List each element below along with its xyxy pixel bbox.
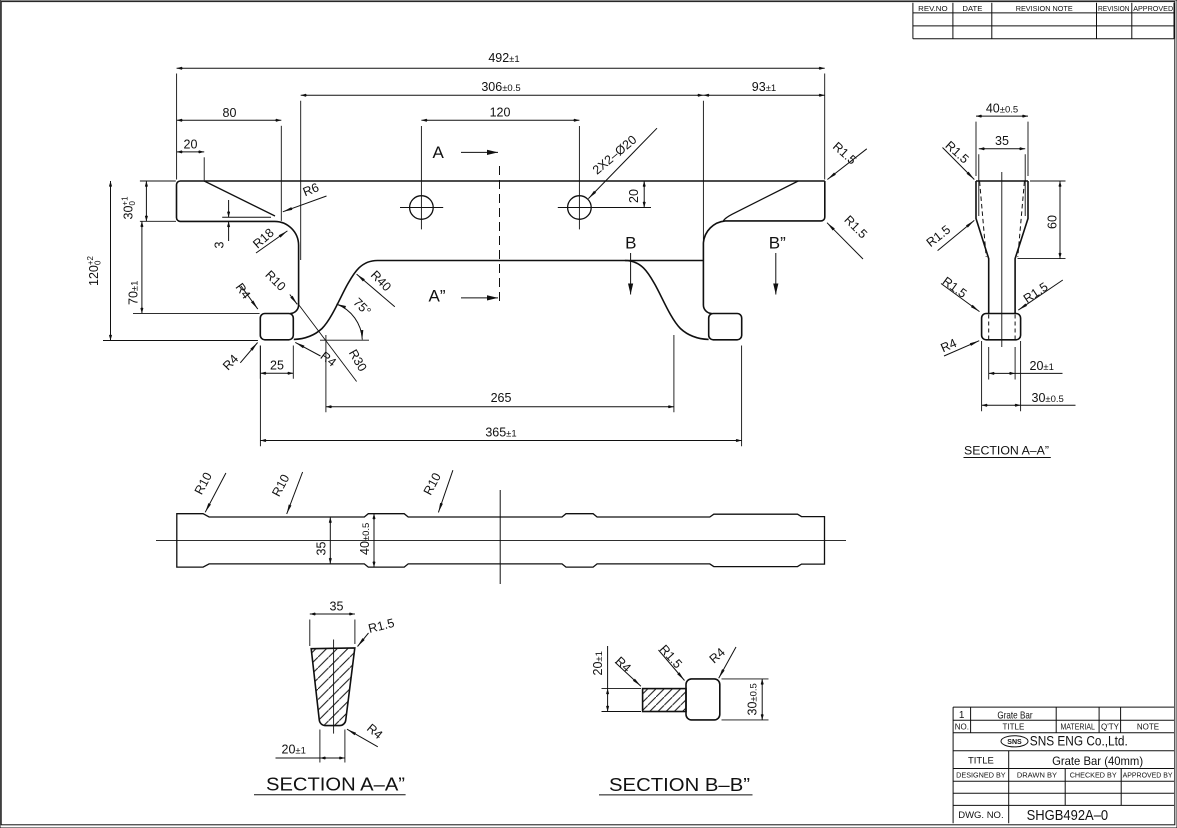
svg-text:R4: R4 xyxy=(612,654,633,675)
svg-text:SNS: SNS xyxy=(1007,739,1022,746)
svg-text:2X2–Ø20: 2X2–Ø20 xyxy=(590,133,639,178)
trapezoid centerline xyxy=(333,640,335,734)
label R1.5 sec 4 xyxy=(1018,280,1063,310)
svg-text:TITLE: TITLE xyxy=(968,755,994,766)
dim 35 trap extensions xyxy=(310,620,355,647)
title block outer xyxy=(953,707,1174,823)
svg-text:R1.5: R1.5 xyxy=(657,642,685,671)
title block columns lower xyxy=(1009,751,1121,823)
svg-text:70±1: 70±1 xyxy=(127,281,141,305)
svg-text:DWG. NO.: DWG. NO. xyxy=(958,810,1003,821)
label R1.5 bottom right xyxy=(827,223,863,259)
hatched web rect xyxy=(643,689,686,712)
dim 80 xyxy=(177,119,282,121)
dim 40 extensions xyxy=(976,122,1028,176)
dim 265 extensions xyxy=(326,335,674,412)
svg-text:B: B xyxy=(625,234,636,253)
svg-text:R4: R4 xyxy=(707,645,728,666)
dim 265 xyxy=(326,406,674,408)
left extension lines xyxy=(103,181,369,341)
plan outline with width steps xyxy=(177,514,825,567)
SECTIONAA-RIGHT xyxy=(924,101,1076,457)
svg-text:REVISION NOTE: REVISION NOTE xyxy=(1016,4,1073,13)
hidden taper right dashed xyxy=(1018,182,1025,258)
label R4 sec xyxy=(944,341,979,356)
tangent diagonal / R30 leader xyxy=(298,304,357,382)
svg-text:DATE: DATE xyxy=(962,4,982,13)
label R1.5 B xyxy=(659,650,685,681)
svg-text:35: 35 xyxy=(995,134,1009,148)
label R10 plan 1 xyxy=(205,473,226,512)
label R4 lower right foot xyxy=(295,342,320,356)
label R1.5 sec 1 xyxy=(943,148,975,180)
hidden taper left dashed xyxy=(980,182,987,258)
hatched trapezoid xyxy=(311,648,355,726)
foot hidden web dashed xyxy=(989,315,1015,340)
dim 25 extensions xyxy=(260,346,293,379)
dim 20 left xyxy=(177,151,205,153)
svg-text:R1.5: R1.5 xyxy=(841,213,870,242)
SECTIONBB xyxy=(591,642,769,795)
svg-text:R1.5: R1.5 xyxy=(830,139,859,167)
revision table grid xyxy=(913,3,1174,39)
dim 120 holes xyxy=(421,119,579,121)
svg-text:MATERIAL: MATERIAL xyxy=(1060,723,1095,732)
section head top edge xyxy=(976,180,1028,182)
FRONTVIEW xyxy=(86,51,870,446)
dim 365 xyxy=(260,440,741,442)
hole 2 xyxy=(568,196,592,220)
dim 492 extension lines xyxy=(177,74,825,180)
svg-text:35: 35 xyxy=(315,542,329,556)
label R6 with leader xyxy=(283,196,327,212)
svg-text:120+20: 120+20 xyxy=(86,255,103,286)
label R4 upper left foot xyxy=(241,286,258,309)
section centerline xyxy=(1001,172,1003,347)
svg-text:SECTION A–A”: SECTION A–A” xyxy=(964,446,1049,458)
dim 30 bottom xyxy=(982,404,1021,406)
label R1.5 top right xyxy=(827,149,866,180)
svg-text:SECTION B–B”: SECTION B–B” xyxy=(609,775,750,795)
svg-text:APPROVED: APPROVED xyxy=(1133,4,1174,13)
label R1.5 sec 2 xyxy=(938,220,975,250)
svg-text:NO.: NO. xyxy=(955,723,969,732)
label R10 front with leader xyxy=(290,295,297,305)
label R4 lower left foot xyxy=(240,343,257,363)
svg-text:R4: R4 xyxy=(318,349,339,370)
hole 1 xyxy=(410,196,434,220)
svg-text:80: 80 xyxy=(223,106,237,120)
left chamfer diagonal xyxy=(204,181,275,216)
dim 25 foot xyxy=(260,372,293,374)
hole 2 centerlines xyxy=(558,126,651,229)
svg-text:30+10: 30+10 xyxy=(121,196,138,220)
section line A dashed xyxy=(499,166,501,303)
PLANVIEW xyxy=(156,470,846,584)
svg-text:REVISION: REVISION xyxy=(1098,4,1130,13)
svg-text:Q'TY: Q'TY xyxy=(1101,723,1120,732)
svg-text:R10: R10 xyxy=(262,268,288,294)
dim 20 B xyxy=(607,689,609,712)
label R10 plan 3 xyxy=(438,470,453,512)
dim 20 bottom xyxy=(989,372,1015,374)
svg-text:120: 120 xyxy=(490,106,511,120)
left S-curve + web bottom edge xyxy=(294,261,704,340)
svg-text:20: 20 xyxy=(184,138,198,152)
75 degree arc xyxy=(337,304,363,340)
svg-text:A: A xyxy=(433,143,445,162)
svg-text:NOTE: NOTE xyxy=(1137,723,1159,732)
svg-text:R1.5: R1.5 xyxy=(367,616,396,636)
svg-text:R10: R10 xyxy=(421,471,444,498)
right S-curve xyxy=(625,261,709,340)
section foot xyxy=(982,314,1021,340)
svg-text:3: 3 xyxy=(213,242,227,249)
right chamfer diagonal xyxy=(724,181,799,221)
SECTIONAA-BOTTOM xyxy=(254,600,406,795)
plan section cut line xyxy=(499,490,501,584)
left chamfer inner line xyxy=(222,216,271,218)
svg-text:306±0.5: 306±0.5 xyxy=(481,80,520,94)
dim 93 xyxy=(703,94,824,96)
label R4 trap xyxy=(347,729,378,747)
label R18 with leader xyxy=(256,231,287,253)
dim 492 xyxy=(177,67,825,69)
svg-text:93±1: 93±1 xyxy=(752,80,776,94)
svg-text:TITLE: TITLE xyxy=(1003,723,1025,732)
svg-text:R4: R4 xyxy=(220,352,241,373)
dim 60 xyxy=(1059,181,1061,259)
svg-text:40±0.5: 40±0.5 xyxy=(358,523,372,555)
label R40 with leader xyxy=(357,274,395,307)
svg-text:20±1: 20±1 xyxy=(1030,359,1054,373)
svg-text:CHECKED BY: CHECKED BY xyxy=(1070,771,1117,780)
svg-text:R4: R4 xyxy=(364,721,385,742)
REVTABLE xyxy=(913,3,1174,39)
company logo xyxy=(1001,736,1028,747)
TITLEBLOCK xyxy=(953,707,1174,824)
svg-text:R10: R10 xyxy=(269,472,292,499)
svg-text:A”: A” xyxy=(429,287,446,306)
dim 40 top xyxy=(976,115,1028,117)
dim 35 plan xyxy=(329,517,331,564)
svg-text:Grate Bar (40mm): Grate Bar (40mm) xyxy=(1052,754,1143,768)
svg-text:SHGB492A–0: SHGB492A–0 xyxy=(1027,807,1109,824)
right foot xyxy=(709,314,742,340)
label R10 plan 2 xyxy=(287,472,303,514)
svg-text:30±0.5: 30±0.5 xyxy=(746,683,760,715)
svg-text:20: 20 xyxy=(627,189,641,203)
rounded foot square xyxy=(686,679,720,720)
svg-text:492±1: 492±1 xyxy=(488,51,519,65)
dim 30 left xyxy=(145,181,147,221)
dim 30 B xyxy=(761,679,763,720)
svg-text:SECTION A–A”: SECTION A–A” xyxy=(266,775,405,795)
svg-text:R6: R6 xyxy=(301,180,321,199)
dim 35 trap xyxy=(310,613,355,615)
svg-text:20±1: 20±1 xyxy=(591,651,605,675)
svg-text:R30: R30 xyxy=(346,347,370,374)
svg-text:R40: R40 xyxy=(368,268,394,294)
svg-text:APPROVED BY: APPROVED BY xyxy=(1123,771,1173,780)
svg-text:1: 1 xyxy=(959,710,965,721)
svg-text:R1.5: R1.5 xyxy=(940,274,970,301)
main outline: top edge + left flange + R18 fillet + web edge to foot xyxy=(177,181,825,314)
dim 70 left xyxy=(141,221,143,313)
svg-text:30±0.5: 30±0.5 xyxy=(1032,391,1064,405)
dim 20 B extensions xyxy=(602,689,642,712)
section head right side xyxy=(1015,181,1028,314)
label R4 B right xyxy=(719,647,736,678)
dim 40 plan xyxy=(373,514,375,568)
dim 60 extensions xyxy=(1018,181,1066,259)
dim 365 extensions xyxy=(260,346,741,447)
svg-text:75°: 75° xyxy=(350,295,373,318)
dim 3 (small) xyxy=(228,200,230,217)
label R1.5 sec 3 xyxy=(941,284,980,312)
dim 20 trap xyxy=(320,757,345,759)
dim 306 extension line xyxy=(301,101,704,260)
hole leader 2X2-O20 xyxy=(588,128,657,198)
label R1.5 trap xyxy=(358,633,369,647)
plan centerline xyxy=(156,539,846,541)
dim 30 bottom extensions xyxy=(982,341,1021,411)
svg-text:R4: R4 xyxy=(939,336,959,355)
dim 20 hole offset xyxy=(643,181,645,208)
dim 80 extension line xyxy=(280,126,282,221)
dim 20 trap extensions xyxy=(320,730,345,763)
svg-text:R1.5: R1.5 xyxy=(924,223,953,250)
dim 120 left xyxy=(110,181,112,341)
title block rows xyxy=(953,720,1174,805)
svg-text:B”: B” xyxy=(769,234,786,253)
dim 35 top xyxy=(979,148,1025,150)
section head left side xyxy=(976,181,989,314)
dim 30 B extensions xyxy=(722,679,769,720)
svg-text:365±1: 365±1 xyxy=(485,425,516,439)
svg-text:265: 265 xyxy=(491,391,512,405)
svg-text:SNS ENG Co.,Ltd.: SNS ENG Co.,Ltd. xyxy=(1030,734,1128,749)
svg-text:40±0.5: 40±0.5 xyxy=(986,101,1018,115)
svg-text:20±1: 20±1 xyxy=(282,743,306,757)
svg-text:DRAWN BY: DRAWN BY xyxy=(1017,771,1057,780)
svg-text:R10: R10 xyxy=(192,470,215,497)
svg-text:R1.5: R1.5 xyxy=(1021,280,1051,306)
title block columns upper xyxy=(971,707,1121,733)
dim 20 bottom extensions xyxy=(989,347,1015,380)
svg-text:35: 35 xyxy=(330,600,344,614)
dim 306 xyxy=(301,94,704,96)
svg-text:Grate Bar: Grate Bar xyxy=(997,710,1033,722)
left foot xyxy=(260,314,293,340)
right flange outline xyxy=(703,181,824,314)
svg-text:R18: R18 xyxy=(250,226,277,252)
label R4 B left xyxy=(615,662,641,686)
dim 35 extensions xyxy=(979,154,1025,216)
svg-text:REV.NO: REV.NO xyxy=(918,4,948,13)
svg-text:60: 60 xyxy=(1046,215,1060,229)
dim 20 extension line xyxy=(203,157,205,180)
svg-text:25: 25 xyxy=(270,359,284,373)
svg-text:DESIGNED BY: DESIGNED BY xyxy=(956,771,1006,780)
hole 1 centerlines xyxy=(400,126,443,229)
